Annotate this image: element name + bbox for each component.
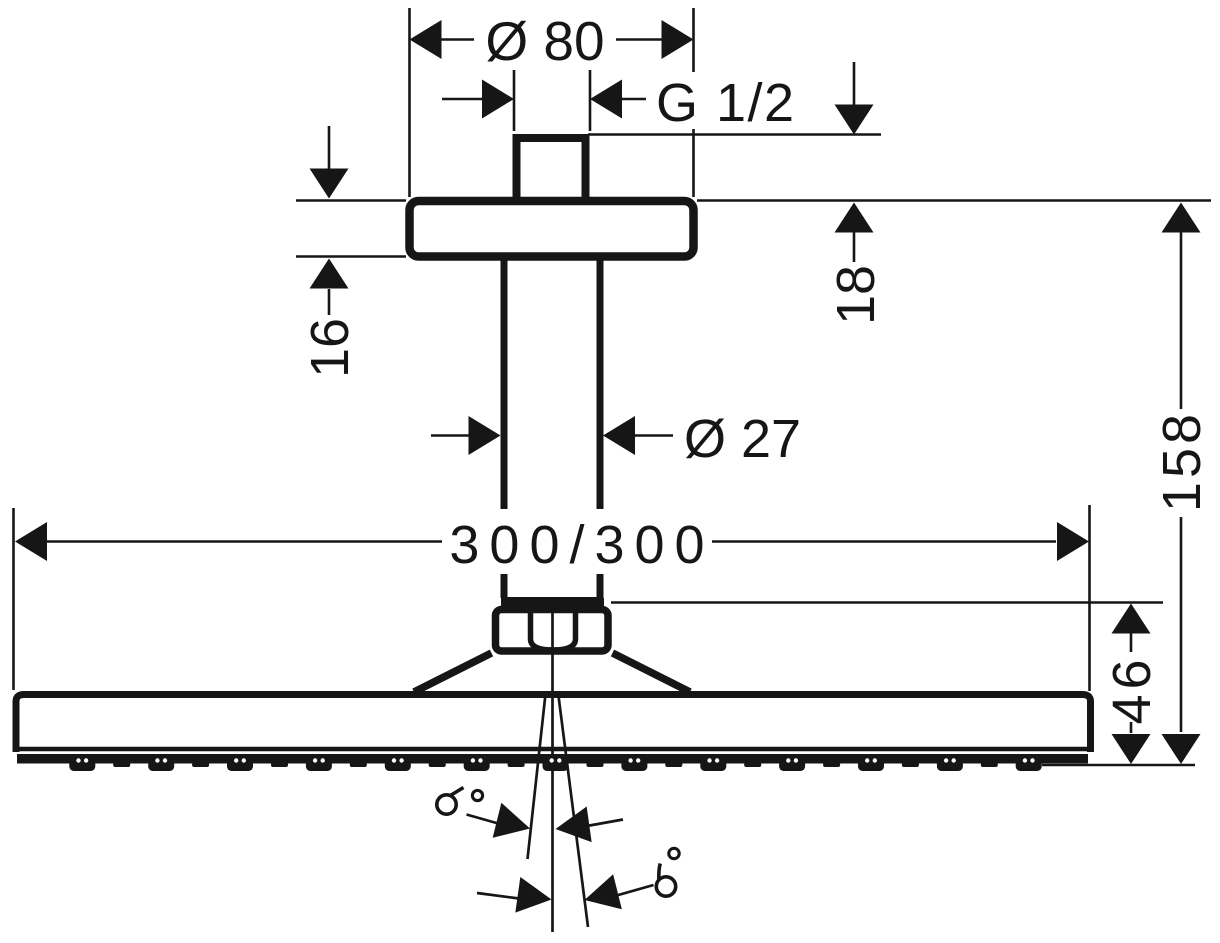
svg-text:G 1/2: G 1/2 xyxy=(656,73,796,133)
svg-text:158: 158 xyxy=(1152,410,1212,512)
svg-text:Ø 80: Ø 80 xyxy=(485,10,604,72)
svg-text:Ø 27: Ø 27 xyxy=(684,409,801,469)
svg-text:300/300: 300/300 xyxy=(449,515,714,575)
svg-text:46: 46 xyxy=(1102,654,1162,724)
svg-text:18: 18 xyxy=(826,265,886,325)
svg-text:16: 16 xyxy=(300,318,360,378)
